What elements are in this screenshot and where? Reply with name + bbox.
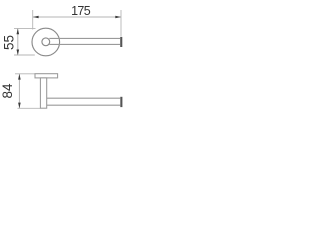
svg-text:175: 175	[71, 4, 91, 18]
svg-text:55: 55	[2, 35, 17, 50]
svg-text:84: 84	[0, 83, 15, 99]
